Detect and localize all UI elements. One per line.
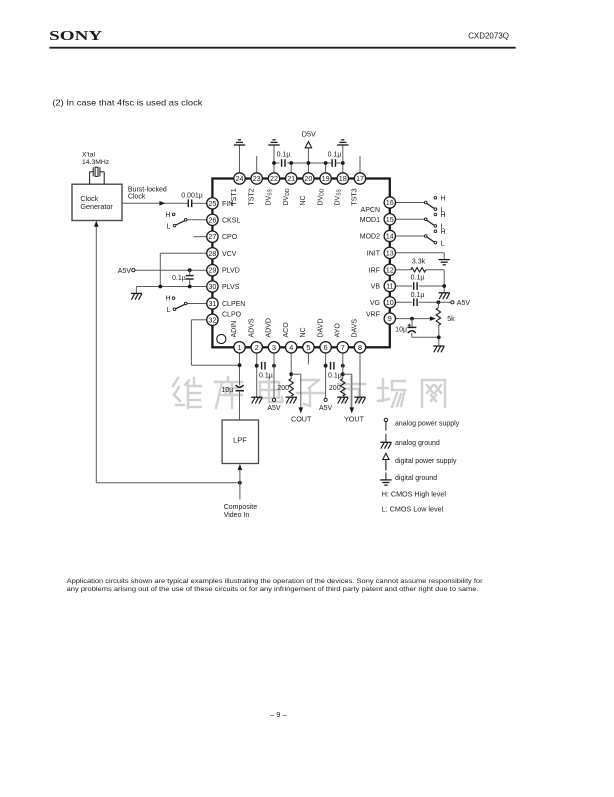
switch H contact bbox=[172, 213, 175, 216]
svg-text:H: H bbox=[165, 212, 170, 219]
pin 24 top bbox=[234, 173, 245, 184]
wire pin3 ADVD down bbox=[273, 353, 275, 398]
resistor 200 (ACO) bbox=[289, 379, 293, 397]
svg-text:Clock: Clock bbox=[128, 193, 146, 200]
svg-text:11: 11 bbox=[386, 282, 393, 291]
resistor 200 (AYO) bbox=[341, 379, 345, 397]
wire pin2 ADVS to ground bbox=[256, 353, 258, 397]
svg-text:DVSS: DVSS bbox=[266, 188, 274, 205]
svg-text:0.1µ: 0.1µ bbox=[328, 373, 342, 380]
wire IRF node down to ground bbox=[443, 270, 445, 292]
pin 11 right bbox=[384, 280, 395, 291]
svg-text:13: 13 bbox=[386, 248, 394, 257]
pin 2 bottom bbox=[251, 342, 262, 353]
digital ground (INIT) bbox=[439, 260, 450, 265]
crystal X1 14.3MHz bbox=[90, 167, 105, 184]
svg-text:0.1µ: 0.1µ bbox=[172, 275, 186, 282]
svg-text:0.1µ: 0.1µ bbox=[277, 152, 291, 159]
wire YOUT down bbox=[351, 374, 353, 407]
svg-text:17: 17 bbox=[356, 174, 364, 183]
svg-text:10µ: 10µ bbox=[221, 387, 233, 394]
svg-text:IRF: IRF bbox=[369, 267, 380, 274]
svg-text:14: 14 bbox=[386, 232, 394, 241]
pin 22 top bbox=[268, 173, 279, 184]
wire VCV down to PLVS net bbox=[159, 253, 161, 286]
wire PLVS to analog ground bbox=[135, 287, 137, 294]
legend digital ground stem bbox=[385, 472, 387, 479]
legend digital power supply symbol bbox=[383, 453, 389, 470]
svg-text:D5V: D5V bbox=[302, 130, 316, 139]
svg-text:25: 25 bbox=[208, 199, 216, 208]
svg-text:3.3k: 3.3k bbox=[412, 259, 426, 266]
svg-text:22: 22 bbox=[270, 174, 278, 183]
svg-text:200: 200 bbox=[277, 385, 289, 392]
capacitor 10u (VRF) bbox=[407, 327, 416, 333]
pin 6 bottom bbox=[320, 342, 331, 353]
watermark bbox=[173, 377, 445, 408]
pin 19 top bbox=[320, 173, 331, 184]
svg-text:H: H bbox=[441, 229, 446, 236]
svg-text:DVSS: DVSS bbox=[335, 188, 343, 205]
switch CKSL H/L bbox=[165, 212, 206, 231]
legend analog power supply symbol bbox=[384, 418, 387, 430]
svg-text:H: H bbox=[441, 195, 446, 202]
IC U1 CXD2073Q body bbox=[212, 179, 389, 348]
digital ground at pin 22 (DVss) bbox=[268, 140, 279, 145]
svg-text:Composite: Composite bbox=[224, 504, 258, 511]
signal arrow burst-locked clock bbox=[159, 201, 165, 206]
svg-text:H: CMOS High level: H: CMOS High level bbox=[382, 490, 447, 499]
svg-text:32: 32 bbox=[208, 315, 216, 324]
wire CLPO to ADIN node bbox=[191, 364, 239, 366]
wire pin1 ADIN down bbox=[239, 353, 241, 385]
pin 9 right bbox=[384, 313, 395, 324]
svg-text:DVDD: DVDD bbox=[317, 188, 325, 205]
pin 23 top bbox=[251, 173, 262, 184]
switch pole bbox=[424, 218, 427, 221]
pin 4 bottom bbox=[286, 342, 297, 353]
arrow COUT output bbox=[299, 407, 304, 413]
svg-text:INIT: INIT bbox=[367, 250, 381, 257]
wire pin7 AYO down bbox=[342, 353, 344, 379]
svg-text:21: 21 bbox=[287, 174, 295, 183]
wire stub pin20 NC bbox=[307, 163, 309, 173]
svg-text:2: 2 bbox=[255, 343, 259, 352]
svg-text:A5V: A5V bbox=[319, 405, 333, 412]
clock generator box bbox=[72, 184, 122, 220]
capacitor 0.1u (VB) bbox=[414, 282, 417, 290]
svg-text:12: 12 bbox=[386, 265, 394, 274]
junction AYO/C bbox=[341, 364, 345, 368]
svg-text:TST3: TST3 bbox=[352, 188, 359, 205]
junction composite video bbox=[238, 481, 242, 485]
digital ground at pin 24 (TST1) bbox=[234, 140, 245, 145]
pin 32 left bbox=[207, 314, 218, 325]
junction PLVD/C bbox=[188, 268, 192, 272]
svg-text:AYO: AYO bbox=[335, 323, 342, 338]
wire C to VB node bbox=[419, 285, 445, 287]
capacitor 0.1u (DVdd-DVss right) bbox=[332, 159, 335, 167]
svg-text:5: 5 bbox=[306, 343, 310, 352]
wire composite video in bbox=[239, 470, 241, 500]
pin 5 bottom bbox=[303, 342, 314, 353]
pin 1 indicator bbox=[217, 334, 226, 343]
pin 28 left bbox=[207, 248, 218, 259]
svg-text:27: 27 bbox=[208, 232, 216, 241]
svg-text:0.1µ: 0.1µ bbox=[328, 152, 342, 159]
potentiometer wiper arrow bbox=[430, 316, 436, 321]
svg-text:ADVD: ADVD bbox=[266, 318, 273, 337]
switch MOD1 H/L bbox=[396, 212, 446, 231]
pin 25 left bbox=[207, 198, 218, 209]
junction bbox=[307, 161, 311, 165]
svg-text:VCV: VCV bbox=[222, 251, 237, 258]
wire PLVD to cap bbox=[189, 270, 191, 275]
pin 12 right bbox=[384, 264, 395, 275]
svg-text:Application circuits shown are: Application circuits shown are typical e… bbox=[67, 578, 484, 585]
junction PLVS/C bbox=[188, 285, 192, 289]
pin 26 left bbox=[207, 214, 218, 225]
svg-text:10: 10 bbox=[386, 298, 394, 307]
wire VRF to 10u cap bbox=[411, 319, 413, 328]
potentiometer 5k (VRF bias) bbox=[436, 308, 440, 326]
svg-text:YOUT: YOUT bbox=[344, 415, 365, 424]
wire CLPO down bbox=[190, 320, 192, 365]
switch H contact bbox=[434, 196, 437, 199]
junction VB net bbox=[442, 284, 446, 288]
wire cap to pin21 bbox=[287, 162, 291, 164]
switch pole bbox=[424, 201, 427, 204]
svg-text:FIN: FIN bbox=[222, 201, 233, 208]
svg-text:16: 16 bbox=[386, 198, 394, 207]
capacitor 0.1u (VG) bbox=[414, 299, 417, 307]
svg-text:any problems arising out of th: any problems arising out of the use of t… bbox=[67, 586, 479, 593]
wire cap to PLVS bbox=[189, 279, 191, 286]
switch pole bbox=[184, 219, 187, 222]
wire stub pin23 TST2 bbox=[256, 156, 258, 173]
junction bbox=[324, 161, 328, 165]
wire pin22 node to C 0.1u bbox=[274, 162, 279, 164]
svg-text:ADIN: ADIN bbox=[231, 321, 238, 338]
svg-text:0.001µ: 0.001µ bbox=[181, 193, 203, 200]
svg-text:X'tal: X'tal bbox=[82, 151, 95, 158]
pin 17 top bbox=[354, 173, 365, 184]
svg-text:MOD2: MOD2 bbox=[360, 234, 380, 241]
svg-text:APCN: APCN bbox=[361, 207, 380, 214]
wire cap to pin18 bbox=[336, 162, 343, 164]
svg-text:analog ground: analog ground bbox=[395, 440, 440, 447]
svg-text:MOD1: MOD1 bbox=[360, 217, 380, 224]
svg-text:200: 200 bbox=[329, 385, 341, 392]
svg-text:DAVS: DAVS bbox=[352, 319, 359, 338]
svg-text:A5V: A5V bbox=[457, 300, 471, 307]
digital ground at pin 18 (DVss) bbox=[337, 140, 348, 145]
svg-text:14.3MHz: 14.3MHz bbox=[82, 159, 110, 166]
svg-text:VB: VB bbox=[371, 284, 381, 291]
svg-text:PLVD: PLVD bbox=[222, 268, 240, 275]
svg-text:CLPEN: CLPEN bbox=[222, 301, 245, 308]
svg-text:20: 20 bbox=[304, 174, 312, 183]
svg-text:H: H bbox=[441, 212, 446, 219]
wire pin10 VG to C bbox=[396, 301, 413, 303]
wire pin22 DVss to digital ground bbox=[273, 145, 275, 173]
wire ACO to COUT bbox=[291, 373, 301, 375]
svg-text:19: 19 bbox=[322, 174, 330, 183]
junction VG/A5V bbox=[437, 300, 441, 304]
svg-text:5k: 5k bbox=[447, 316, 455, 323]
wire pin32 CLPO bbox=[191, 319, 206, 321]
svg-text:30: 30 bbox=[208, 282, 216, 291]
wire pin8 DAVS to ground bbox=[359, 353, 361, 397]
svg-text:L: L bbox=[441, 240, 445, 247]
wire to D5V supply bbox=[307, 148, 309, 163]
svg-text:DVDD: DVDD bbox=[283, 188, 291, 205]
svg-text:6: 6 bbox=[324, 343, 328, 352]
junction bbox=[289, 161, 293, 165]
switch L contact bbox=[173, 224, 176, 227]
svg-text:CLPO: CLPO bbox=[222, 311, 242, 318]
pin 3 bottom bbox=[268, 342, 279, 353]
svg-text:Burst-locked: Burst-locked bbox=[128, 186, 167, 193]
pin 18 top bbox=[337, 173, 348, 184]
wire pin9 VRF to wiper bbox=[396, 318, 431, 320]
svg-text:28: 28 bbox=[208, 249, 216, 258]
svg-text:NC: NC bbox=[300, 327, 307, 337]
switch L contact bbox=[173, 308, 176, 311]
svg-text:COUT: COUT bbox=[291, 415, 312, 424]
svg-text:31: 31 bbox=[208, 299, 216, 308]
wire pin6 DAVD down bbox=[325, 353, 327, 398]
wire A5V node to potentiometer bbox=[437, 302, 439, 307]
switch MOD2 H/L bbox=[396, 229, 446, 248]
switch H contact bbox=[434, 230, 437, 233]
pin 8 bottom bbox=[354, 342, 365, 353]
switch CLPEN H/L bbox=[165, 296, 206, 315]
svg-text:1: 1 bbox=[238, 343, 242, 352]
legend digital ground symbol bbox=[380, 480, 391, 485]
switch L contact bbox=[434, 241, 437, 244]
wire AYO to YOUT bbox=[343, 373, 352, 375]
svg-text:ADVS: ADVS bbox=[248, 318, 255, 337]
svg-text:H: H bbox=[165, 296, 170, 303]
wire C to pin25 FIN bbox=[192, 202, 207, 204]
pin 7 bottom bbox=[337, 342, 348, 353]
analog ground (VRF net) bbox=[433, 346, 444, 352]
svg-text:10µ: 10µ bbox=[395, 327, 407, 334]
wire pin19 to C 0.1u bbox=[326, 162, 332, 164]
junction AYO bbox=[341, 372, 345, 376]
wire video junction to clock branch bbox=[96, 482, 240, 484]
svg-text:NC: NC bbox=[300, 195, 307, 205]
wire stub pin5 NC bbox=[307, 353, 309, 365]
wire pin29 PLVD to A5V bbox=[135, 269, 207, 271]
svg-text:LPF: LPF bbox=[233, 436, 247, 445]
capacitor 0.1u (DVss-DVdd left) bbox=[282, 159, 285, 167]
svg-text:15: 15 bbox=[386, 215, 394, 224]
svg-text:23: 23 bbox=[253, 174, 261, 183]
wire cap to pot bottom bbox=[412, 336, 439, 338]
svg-text:Generator: Generator bbox=[80, 202, 113, 211]
legend analog ground stem bbox=[385, 434, 387, 442]
junction PLVS/VCV bbox=[158, 285, 162, 289]
wire pin28 VCV bbox=[160, 252, 207, 254]
terminal A5V (PLVD) bbox=[132, 269, 135, 272]
junction bbox=[272, 161, 276, 165]
analog ground (DAVS) bbox=[354, 397, 365, 403]
svg-text:TST2: TST2 bbox=[248, 188, 255, 205]
wire pin13 INIT bbox=[396, 252, 445, 254]
svg-text:CPO: CPO bbox=[222, 234, 238, 241]
svg-text:L: L bbox=[167, 307, 171, 314]
analog ground (AYO load) bbox=[337, 397, 348, 403]
analog ground (PLVS) bbox=[131, 293, 142, 299]
svg-text:digital power supply: digital power supply bbox=[395, 458, 457, 465]
switch pole bbox=[424, 235, 427, 238]
svg-text:0.1µ: 0.1µ bbox=[411, 274, 425, 281]
svg-text:DAVD: DAVD bbox=[317, 319, 324, 338]
junction ADIN/CLPO bbox=[238, 363, 242, 367]
switch L contact bbox=[434, 208, 437, 211]
digital power supply D5V bbox=[305, 142, 311, 148]
wire pin18 DVss to digital ground bbox=[342, 145, 344, 173]
wire INIT to digital ground bbox=[443, 253, 445, 260]
junction DAVD/C bbox=[324, 364, 328, 368]
junction pot/cap bbox=[437, 335, 441, 339]
switch H contact bbox=[172, 297, 175, 300]
pin 21 top bbox=[286, 173, 297, 184]
pin 31 left bbox=[207, 298, 218, 309]
wire clock generator to C bbox=[122, 202, 188, 204]
svg-text:0.1µ: 0.1µ bbox=[411, 292, 425, 299]
wire stub pin19 DVdd bbox=[325, 163, 327, 173]
svg-text:8: 8 bbox=[358, 343, 362, 352]
pin 16 right bbox=[384, 197, 395, 208]
switch pole bbox=[184, 302, 187, 305]
wire D5V bus pin21-pin19 bbox=[291, 162, 325, 164]
pin 15 right bbox=[384, 214, 395, 225]
svg-text:L: CMOS Low level: L: CMOS Low level bbox=[382, 504, 444, 513]
svg-text:0.1µ: 0.1µ bbox=[259, 373, 273, 380]
arrow into clock generator bbox=[94, 221, 99, 227]
wire stub pin17 TST3 bbox=[359, 156, 361, 173]
legend analog ground symbol bbox=[380, 442, 391, 448]
svg-text:VG: VG bbox=[370, 300, 380, 307]
terminal A5V right bbox=[451, 301, 454, 304]
svg-text:9: 9 bbox=[388, 314, 392, 323]
pin 30 left bbox=[207, 281, 218, 292]
analog ground (VB net) bbox=[439, 293, 450, 299]
svg-text:CKSL: CKSL bbox=[222, 217, 240, 224]
wire pin24 to digital ground bbox=[239, 145, 241, 173]
svg-text:A5V: A5V bbox=[118, 268, 132, 275]
wire pot bottom to ground bbox=[438, 325, 440, 345]
switch L contact bbox=[434, 225, 437, 228]
capacitor 0.1u (ADVS-ADVD) bbox=[262, 362, 265, 370]
capacitor 10u (ADIN coupling) bbox=[236, 385, 245, 391]
svg-text:29: 29 bbox=[208, 266, 216, 275]
wire pin11 VB to C bbox=[396, 285, 413, 287]
LPF box bbox=[222, 420, 258, 464]
svg-text:ACO: ACO bbox=[283, 322, 290, 338]
svg-text:L: L bbox=[167, 223, 171, 230]
header rule bbox=[49, 47, 515, 49]
capacitor 0.1u (DAVD-AYO) bbox=[331, 362, 334, 370]
pin 27 left bbox=[207, 231, 218, 242]
svg-text:7: 7 bbox=[341, 343, 345, 352]
wire cap to ground rail bbox=[411, 333, 413, 337]
junction ADVD/C bbox=[272, 364, 276, 368]
svg-text:CXD2073Q: CXD2073Q bbox=[468, 32, 509, 41]
wire R to VB node bbox=[426, 269, 444, 271]
analog ground (ADVS) bbox=[251, 397, 262, 403]
resistor 3.3k (IRF) bbox=[411, 268, 426, 272]
switch H contact bbox=[434, 213, 437, 216]
pin 10 right bbox=[384, 297, 395, 308]
svg-text:– 9 –: – 9 – bbox=[270, 710, 288, 719]
svg-text:(2) In case that 4fsc is used: (2) In case that 4fsc is used as clock bbox=[52, 98, 203, 108]
wire C to A5V terminal bbox=[419, 301, 451, 303]
pin 14 right bbox=[384, 230, 395, 241]
svg-text:24: 24 bbox=[236, 174, 244, 183]
pin 13 right bbox=[384, 247, 395, 258]
wire pin4 ACO down bbox=[290, 353, 292, 379]
wire cap to LPF bbox=[239, 391, 241, 420]
plus mark (10u polarity) bbox=[408, 324, 411, 327]
svg-text:3: 3 bbox=[272, 343, 276, 352]
svg-text:PLVS: PLVS bbox=[222, 284, 240, 291]
capacitor 0.001u (FIN coupling) bbox=[188, 200, 191, 208]
svg-text:A5V: A5V bbox=[267, 405, 281, 412]
svg-text:SONY: SONY bbox=[49, 28, 102, 43]
wire COUT down bbox=[300, 374, 302, 407]
junction bbox=[341, 161, 345, 165]
terminal A5V (ADVD) bbox=[272, 398, 275, 401]
wire stub pin27 CPO bbox=[194, 236, 207, 238]
svg-text:26: 26 bbox=[208, 215, 216, 224]
svg-text:digital ground: digital ground bbox=[395, 475, 437, 482]
wire stub pin21 DVdd bbox=[290, 163, 292, 173]
pin 29 left bbox=[207, 265, 218, 276]
arrow YOUT output bbox=[350, 407, 355, 413]
junction ADVS/C bbox=[255, 364, 259, 368]
capacitor 0.1u (PLVD-PLVS) bbox=[186, 276, 194, 279]
junction ACO bbox=[289, 372, 293, 376]
terminal A5V (DAVD) bbox=[324, 398, 327, 401]
pin 20 top bbox=[303, 173, 314, 184]
svg-text:Video In: Video In bbox=[224, 512, 250, 519]
pin 1 bottom bbox=[234, 342, 245, 353]
wire composite video to clock generator bbox=[95, 226, 97, 483]
svg-text:18: 18 bbox=[339, 174, 347, 183]
svg-text:analog power supply: analog power supply bbox=[395, 421, 460, 428]
junction VRF/C bbox=[410, 317, 414, 321]
switch APCN H/L bbox=[396, 195, 446, 214]
wire pin30 PLVS bbox=[136, 286, 206, 288]
arrow into LPF bbox=[238, 464, 243, 470]
svg-text:4: 4 bbox=[289, 343, 293, 352]
wire pin12 IRF to R bbox=[396, 269, 411, 271]
analog ground (ACO load) bbox=[286, 397, 297, 403]
svg-text:VRF: VRF bbox=[366, 311, 380, 318]
